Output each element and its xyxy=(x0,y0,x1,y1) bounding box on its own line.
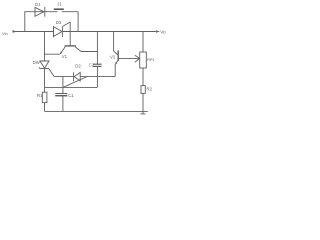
svg-text:C2: C2 xyxy=(89,63,95,68)
svg-text:D2: D2 xyxy=(75,63,81,68)
svg-text:V2: V2 xyxy=(110,55,116,60)
svg-text:R2: R2 xyxy=(147,87,153,92)
svg-text:D3: D3 xyxy=(56,20,62,25)
svg-text:D1: D1 xyxy=(35,2,41,7)
svg-text:DW: DW xyxy=(33,60,41,65)
svg-text:C1: C1 xyxy=(68,93,74,98)
svg-text:Vin: Vin xyxy=(2,31,8,36)
svg-text:Vo: Vo xyxy=(160,29,166,34)
svg-text:V1: V1 xyxy=(62,54,68,59)
svg-text:RP1: RP1 xyxy=(147,57,156,62)
svg-text:J1: J1 xyxy=(57,2,62,7)
svg-text:R1: R1 xyxy=(37,93,43,98)
